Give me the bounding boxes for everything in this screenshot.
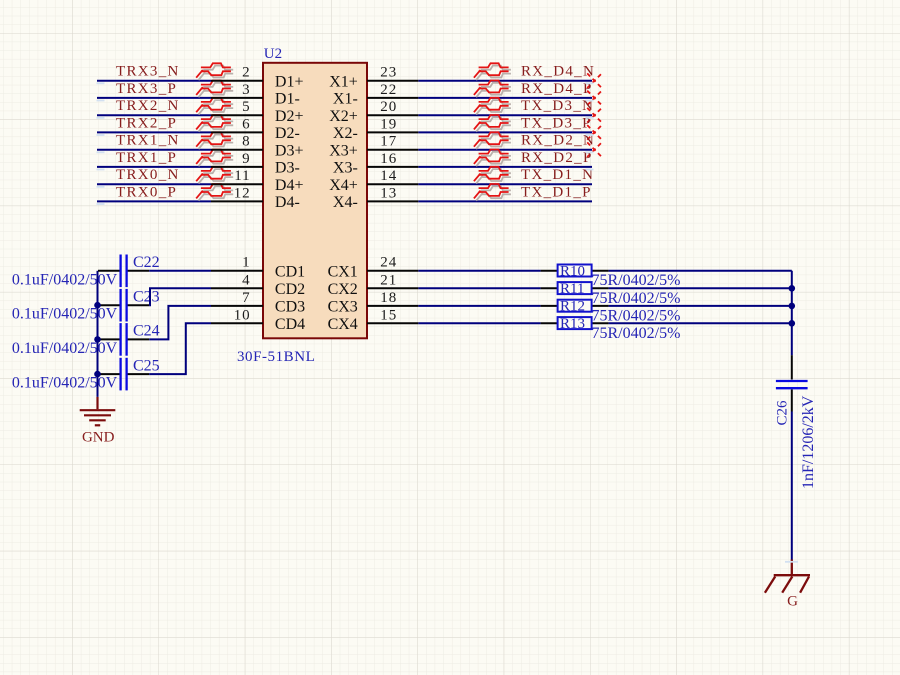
- svg-text:X3-: X3-: [333, 160, 358, 177]
- wire TRX2_N: [97, 114, 211, 116]
- svg-text:CD3: CD3: [275, 299, 305, 316]
- svg-text:D3-: D3-: [275, 160, 300, 177]
- svg-text:12: 12: [234, 185, 251, 201]
- svg-text:8: 8: [242, 134, 250, 150]
- U2 pin 16 (X3-): [333, 151, 418, 177]
- svg-text:75R/0402/5%: 75R/0402/5%: [592, 290, 681, 307]
- svg-text:TRX0_P: TRX0_P: [116, 184, 177, 200]
- U2 pin 9 (D3-): [211, 151, 300, 177]
- svg-text:C25: C25: [133, 357, 160, 374]
- svg-text:75R/0402/5%: 75R/0402/5%: [592, 325, 681, 342]
- wire RX_D2_P: [418, 166, 592, 168]
- svg-text:22: 22: [380, 82, 397, 98]
- svg-text:23: 23: [380, 65, 397, 81]
- svg-text:1: 1: [242, 255, 250, 271]
- U2 pin 7 (CD3): [211, 290, 305, 316]
- svg-text:10: 10: [234, 307, 251, 323]
- wire TX_D3_P: [418, 131, 592, 133]
- junction on right bus: [789, 285, 796, 292]
- svg-text:X3+: X3+: [329, 143, 358, 160]
- svg-text:3: 3: [242, 82, 250, 98]
- svg-text:75R/0402/5%: 75R/0402/5%: [592, 272, 681, 289]
- wire pin21 to R11: [418, 287, 540, 289]
- junction on GND bus: [94, 336, 101, 343]
- svg-text:11: 11: [234, 168, 250, 184]
- svg-text:X2-: X2-: [333, 125, 358, 142]
- svg-text:G: G: [787, 594, 798, 610]
- junction on GND bus: [94, 371, 101, 378]
- U2 pin 17 (X3+): [329, 134, 418, 160]
- wire RX_D2_N: [418, 149, 592, 151]
- svg-text:75R/0402/5%: 75R/0402/5%: [592, 307, 681, 324]
- svg-text:1nF/1206/2kV: 1nF/1206/2kV: [800, 395, 817, 489]
- svg-text:X4-: X4-: [333, 194, 358, 211]
- svg-text:CX1: CX1: [328, 264, 358, 281]
- wire TX_D1_P: [418, 200, 592, 202]
- svg-text:CD4: CD4: [275, 316, 305, 333]
- differential pair directive on RX_D2_P: [474, 150, 511, 167]
- svg-text:R12: R12: [560, 299, 585, 315]
- svg-text:X4+: X4+: [329, 177, 358, 194]
- svg-text:R13: R13: [560, 316, 585, 332]
- differential pair directive on TX_D3_P: [474, 115, 511, 132]
- svg-text:C22: C22: [133, 254, 160, 271]
- U2 pin 10 (CD4): [211, 307, 305, 333]
- wire RX_D4_P: [418, 97, 592, 99]
- svg-text:17: 17: [380, 134, 397, 150]
- svg-text:U2: U2: [264, 46, 282, 62]
- svg-text:C26: C26: [775, 400, 791, 426]
- wire R13 to bus: [609, 322, 792, 324]
- wire TRX1_N: [97, 149, 211, 151]
- svg-text:2: 2: [242, 65, 250, 81]
- svg-text:TX_D3_N: TX_D3_N: [521, 98, 594, 114]
- differential pair directive on RX_D4_N: [474, 63, 511, 80]
- no-ERC cross at end of RX_D4_N: [587, 73, 602, 88]
- wire TX_D1_N: [418, 183, 592, 185]
- wire pin15 to R13: [418, 322, 540, 324]
- wire C26 to chassis ground: [791, 412, 793, 560]
- differential pair directive on TRX2_P: [196, 115, 233, 132]
- U2 pin 13 (X4-): [333, 185, 418, 211]
- resistor R11: [541, 282, 609, 294]
- svg-text:X2+: X2+: [329, 108, 358, 125]
- svg-text:21: 21: [380, 272, 397, 288]
- differential pair directive on TX_D3_N: [474, 98, 511, 115]
- svg-text:X1+: X1+: [329, 74, 358, 91]
- U2 pin 1 (CD1): [211, 255, 305, 281]
- wire TX_D3_N: [418, 114, 592, 116]
- svg-text:13: 13: [380, 185, 397, 201]
- ground G chassis symbol: [765, 560, 810, 593]
- svg-text:20: 20: [380, 99, 397, 115]
- wire pin4 to C23: [149, 288, 211, 305]
- differential pair directive on TRX0_P: [196, 184, 233, 201]
- resistor R10: [541, 265, 609, 277]
- wire pin7 to C24: [149, 306, 211, 340]
- wire TRX3_N: [97, 80, 211, 82]
- U2 pin 14 (X4+): [329, 168, 418, 194]
- U2 pin 3 (D1-): [211, 82, 300, 108]
- differential pair directive on TRX2_N: [196, 98, 233, 115]
- svg-text:15: 15: [380, 307, 397, 323]
- resistor R12: [541, 300, 609, 312]
- differential pair directive on TX_D1_N: [474, 167, 511, 184]
- wire TRX2_P: [97, 131, 211, 133]
- svg-text:C24: C24: [133, 323, 160, 340]
- svg-text:0.1uF/0402/50V: 0.1uF/0402/50V: [12, 340, 118, 357]
- svg-text:0.1uF/0402/50V: 0.1uF/0402/50V: [12, 271, 118, 288]
- svg-text:D4+: D4+: [275, 177, 304, 194]
- svg-text:D2+: D2+: [275, 108, 304, 125]
- svg-text:CD2: CD2: [275, 281, 305, 298]
- U2 pin 15 (CX4): [328, 307, 419, 333]
- snap marks at open wire ends: [97, 83, 799, 562]
- differential pair directive on TRX1_N: [196, 132, 233, 149]
- U2 pin 11 (D4+): [211, 168, 303, 194]
- differential pair directive on TRX3_N: [196, 63, 233, 80]
- capacitor C25: [98, 358, 149, 391]
- U2 pin 22 (X1-): [333, 82, 418, 108]
- svg-text:16: 16: [380, 151, 397, 167]
- differential pair directive on RX_D4_P: [474, 81, 511, 98]
- svg-text:30F-51BNL: 30F-51BNL: [237, 349, 315, 365]
- svg-text:RX_D2_P: RX_D2_P: [521, 150, 593, 166]
- svg-text:TRX2_N: TRX2_N: [116, 98, 180, 114]
- svg-text:4: 4: [242, 272, 250, 288]
- svg-text:TRX3_P: TRX3_P: [116, 81, 177, 97]
- svg-text:TRX2_P: TRX2_P: [116, 115, 177, 131]
- wire TRX0_P: [97, 200, 211, 202]
- no-ERC cross at end of RX_D2_N: [587, 142, 602, 157]
- svg-text:TRX1_N: TRX1_N: [116, 133, 180, 149]
- capacitor C24: [98, 323, 149, 356]
- U2 pin 2 (D1+): [211, 65, 303, 91]
- svg-text:D1-: D1-: [275, 91, 300, 108]
- svg-text:TRX0_N: TRX0_N: [116, 167, 180, 183]
- svg-text:CX2: CX2: [328, 281, 358, 298]
- resistor R13: [541, 317, 609, 329]
- wire TRX0_N: [97, 183, 211, 185]
- svg-text:TX_D1_N: TX_D1_N: [521, 167, 594, 183]
- svg-text:14: 14: [380, 168, 397, 184]
- no-ERC cross at end of TX_D3_P: [587, 125, 602, 140]
- svg-text:D4-: D4-: [275, 194, 300, 211]
- U2 pin 20 (X2+): [329, 99, 418, 125]
- wire pin1 to C22: [149, 270, 211, 272]
- U2 pin 24 (CX1): [328, 255, 419, 281]
- svg-text:TRX3_N: TRX3_N: [116, 64, 180, 80]
- svg-text:C23: C23: [133, 288, 160, 305]
- svg-text:0.1uF/0402/50V: 0.1uF/0402/50V: [12, 306, 118, 323]
- svg-text:D1+: D1+: [275, 74, 304, 91]
- svg-text:7: 7: [242, 290, 250, 306]
- transformer U2 body: [263, 63, 367, 339]
- U2 pin 18 (CX3): [328, 290, 419, 316]
- wire RX_D4_N: [418, 80, 592, 82]
- svg-text:GND: GND: [82, 430, 115, 446]
- wire pin10 to C25: [149, 323, 211, 374]
- wire TRX1_P: [97, 166, 211, 168]
- U2 pin 12 (D4-): [211, 185, 300, 211]
- svg-text:R11: R11: [560, 281, 584, 297]
- svg-text:24: 24: [380, 255, 397, 271]
- svg-text:TX_D1_P: TX_D1_P: [521, 184, 592, 200]
- wire R10 to bus: [609, 270, 792, 272]
- svg-text:19: 19: [380, 116, 397, 132]
- wire R11 to bus: [609, 287, 792, 289]
- wire pin24 to R10: [418, 270, 540, 272]
- svg-text:TX_D3_P: TX_D3_P: [521, 115, 592, 131]
- U2 pin 8 (D3+): [211, 134, 303, 160]
- svg-text:18: 18: [380, 290, 397, 306]
- svg-text:R10: R10: [560, 264, 585, 280]
- junction on right bus: [789, 320, 796, 327]
- U2 pin 23 (X1+): [329, 65, 418, 91]
- ground GND power symbol: [80, 397, 116, 425]
- svg-text:RX_D4_N: RX_D4_N: [521, 64, 595, 80]
- svg-text:TRX1_P: TRX1_P: [116, 150, 177, 166]
- wire R12 to bus: [609, 305, 792, 307]
- svg-text:D2-: D2-: [275, 125, 300, 142]
- capacitor C23: [98, 289, 149, 322]
- capacitor C26: [776, 355, 808, 411]
- wire GND bus vertical: [97, 271, 99, 397]
- svg-text:9: 9: [242, 151, 250, 167]
- U2 pin 21 (CX2): [328, 272, 419, 298]
- svg-text:CD1: CD1: [275, 264, 305, 281]
- U2 pin 5 (D2+): [211, 99, 303, 125]
- U2 pin 19 (X2-): [333, 116, 418, 142]
- svg-text:X1-: X1-: [333, 91, 358, 108]
- wire TRX3_P: [97, 97, 211, 99]
- svg-text:RX_D4_P: RX_D4_P: [521, 81, 593, 97]
- capacitor C22: [98, 255, 149, 288]
- differential pair directive on TRX0_N: [196, 167, 233, 184]
- differential pair directive on TRX1_P: [196, 150, 233, 167]
- differential pair directive on TRX3_P: [196, 81, 233, 98]
- differential pair directive on RX_D2_N: [474, 132, 511, 149]
- svg-text:CX4: CX4: [328, 316, 358, 333]
- differential pair directive on TX_D1_P: [474, 184, 511, 201]
- U2 pin 6 (D2-): [211, 116, 300, 142]
- svg-text:D3+: D3+: [275, 143, 304, 160]
- svg-text:6: 6: [242, 116, 250, 132]
- wire pin18 to R12: [418, 305, 540, 307]
- svg-text:CX3: CX3: [328, 299, 358, 316]
- no-ERC cross at end of RX_D4_P: [587, 91, 602, 106]
- svg-text:0.1uF/0402/50V: 0.1uF/0402/50V: [12, 375, 118, 392]
- no-ERC cross at end of TX_D3_N: [587, 108, 602, 123]
- junction on GND bus: [94, 302, 101, 309]
- svg-text:RX_D2_N: RX_D2_N: [521, 133, 595, 149]
- wire right bus vertical: [791, 271, 793, 356]
- svg-text:5: 5: [242, 99, 250, 115]
- U2 pin 4 (CD2): [211, 272, 305, 298]
- junction on right bus: [789, 303, 796, 310]
